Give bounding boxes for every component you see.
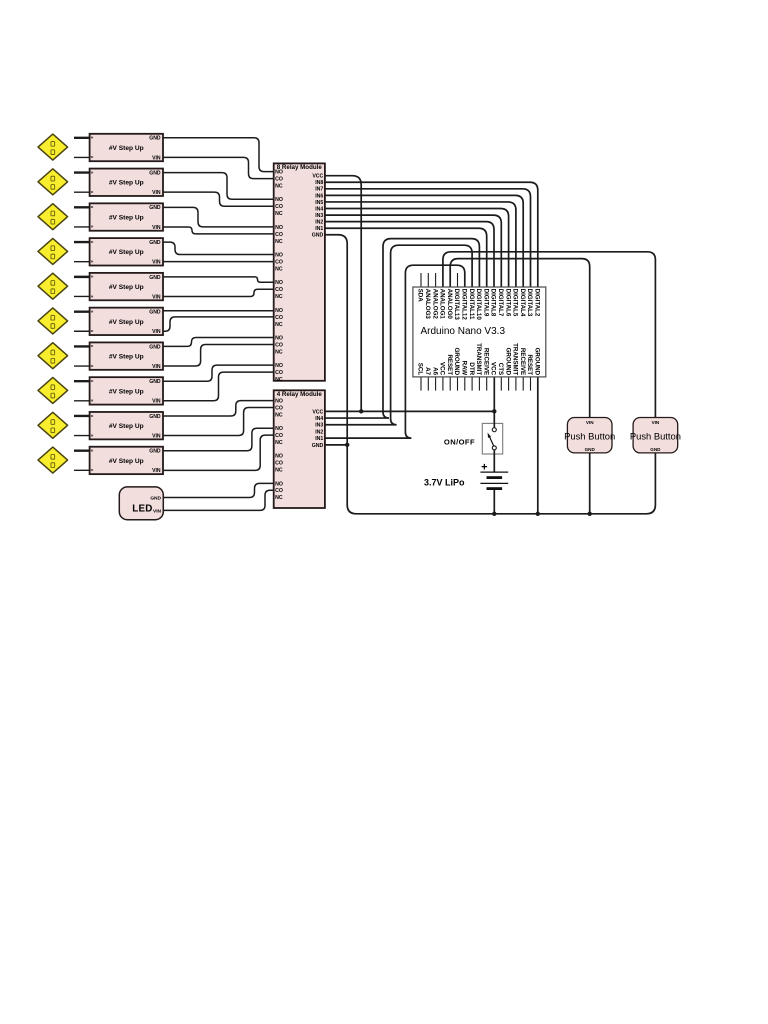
- svg-text:3.7V LiPo: 3.7V LiPo: [424, 477, 465, 487]
- svg-text:NC: NC: [275, 349, 283, 355]
- svg-text:CO: CO: [275, 370, 283, 376]
- svg-text:CO: CO: [275, 259, 283, 265]
- svg-text:VIN: VIN: [152, 468, 161, 474]
- svg-text:VIN: VIN: [652, 420, 660, 425]
- svg-text:GND: GND: [149, 170, 161, 176]
- svg-text:NC: NC: [275, 468, 283, 474]
- svg-text:IN: IN: [91, 380, 94, 383]
- svg-text:SCL: SCL: [417, 363, 424, 376]
- svg-text:GND: GND: [149, 240, 161, 246]
- svg-text:VIN: VIN: [152, 260, 161, 266]
- svg-text:IN8: IN8: [315, 180, 323, 186]
- svg-text:VIN: VIN: [153, 508, 162, 514]
- svg-text:CO: CO: [275, 405, 283, 411]
- svg-text:RECEIVE: RECEIVE: [482, 348, 489, 375]
- svg-text:IN: IN: [91, 276, 94, 279]
- svg-text:IN: IN: [91, 137, 94, 140]
- svg-text:NO: NO: [275, 170, 283, 176]
- svg-text:VCC: VCC: [312, 409, 323, 415]
- svg-text:A6: A6: [431, 367, 438, 375]
- svg-text:RECEIVE: RECEIVE: [519, 348, 526, 375]
- svg-text:IN: IN: [91, 469, 94, 472]
- svg-text:LED: LED: [132, 504, 152, 515]
- svg-text:GND: GND: [149, 310, 161, 316]
- svg-text:IN2: IN2: [315, 220, 323, 226]
- svg-text:NO: NO: [275, 426, 283, 432]
- svg-text:DIGITAL10: DIGITAL10: [475, 289, 482, 321]
- svg-text:VCC: VCC: [490, 362, 497, 376]
- svg-text:IN: IN: [91, 191, 94, 194]
- svg-text:NO: NO: [275, 481, 283, 487]
- svg-text:IN: IN: [91, 434, 94, 437]
- svg-text:+: +: [481, 462, 487, 474]
- svg-text:IN: IN: [91, 450, 94, 453]
- svg-text:VIN: VIN: [152, 155, 161, 161]
- svg-text:TRANSMIT: TRANSMIT: [512, 343, 519, 375]
- svg-text:CO: CO: [275, 488, 283, 494]
- svg-text:CO: CO: [275, 342, 283, 348]
- svg-text:ANALOG1: ANALOG1: [439, 289, 446, 320]
- svg-text:CO: CO: [275, 232, 283, 238]
- svg-text:NC: NC: [275, 322, 283, 328]
- svg-text:VIN: VIN: [152, 225, 161, 231]
- svg-text:VIN: VIN: [152, 329, 161, 335]
- svg-text:IN6: IN6: [315, 193, 323, 199]
- svg-text:GND: GND: [150, 495, 161, 501]
- svg-text:DIGITAL12: DIGITAL12: [461, 289, 468, 321]
- svg-text:GND: GND: [149, 136, 161, 142]
- svg-text:GND: GND: [585, 447, 596, 452]
- svg-text:ANALOG3: ANALOG3: [424, 289, 431, 320]
- svg-text:Arduino Nano V3.3: Arduino Nano V3.3: [421, 326, 506, 337]
- svg-text:IN: IN: [91, 226, 94, 229]
- svg-text:DIGITAL3: DIGITAL3: [526, 289, 533, 317]
- svg-text:IN: IN: [91, 295, 94, 298]
- svg-text:RAW: RAW: [461, 361, 468, 376]
- svg-text:#V Step Up: #V Step Up: [109, 284, 144, 291]
- svg-text:NO: NO: [275, 308, 283, 314]
- svg-text:NO: NO: [275, 363, 283, 369]
- svg-text:VIN: VIN: [152, 399, 161, 405]
- svg-text:NC: NC: [275, 412, 283, 418]
- svg-text:NC: NC: [275, 211, 283, 217]
- svg-text:NO: NO: [275, 197, 283, 203]
- svg-text:CO: CO: [275, 287, 283, 293]
- svg-text:#V Step Up: #V Step Up: [109, 214, 144, 221]
- svg-text:VIN: VIN: [152, 364, 161, 370]
- svg-text:CO: CO: [275, 177, 283, 183]
- svg-text:NC: NC: [275, 266, 283, 272]
- svg-text:SDA: SDA: [417, 289, 424, 303]
- svg-text:VCC: VCC: [439, 362, 446, 376]
- svg-text:CO: CO: [275, 204, 283, 210]
- svg-text:IN2: IN2: [315, 429, 323, 435]
- svg-text:IN: IN: [91, 415, 94, 418]
- svg-text:A7: A7: [424, 367, 431, 375]
- svg-text:RESET: RESET: [526, 354, 533, 375]
- svg-text:DIGITAL2: DIGITAL2: [534, 289, 541, 317]
- svg-text:RESET: RESET: [446, 354, 453, 375]
- svg-text:NC: NC: [275, 294, 283, 300]
- svg-text:VIN: VIN: [152, 433, 161, 439]
- svg-text:GROUND: GROUND: [453, 348, 460, 376]
- svg-text:NO: NO: [275, 454, 283, 460]
- svg-text:#V Step Up: #V Step Up: [109, 249, 144, 256]
- svg-text:GND: GND: [149, 344, 161, 350]
- svg-text:NO: NO: [275, 399, 283, 405]
- svg-text:GND: GND: [312, 233, 324, 239]
- svg-text:GND: GND: [149, 414, 161, 420]
- svg-text:ANALOG2: ANALOG2: [431, 289, 438, 320]
- svg-text:GND: GND: [149, 379, 161, 385]
- svg-text:CO: CO: [275, 433, 283, 439]
- svg-text:NO: NO: [275, 280, 283, 286]
- svg-text:GND: GND: [149, 275, 161, 281]
- svg-text:IN5: IN5: [315, 200, 323, 206]
- svg-text:#V Step Up: #V Step Up: [109, 354, 144, 361]
- svg-text:GND: GND: [650, 447, 661, 452]
- svg-text:Push Button: Push Button: [564, 431, 615, 442]
- svg-text:DIGITAL4: DIGITAL4: [519, 289, 526, 317]
- svg-text:IN4: IN4: [315, 206, 323, 212]
- svg-text:VIN: VIN: [152, 294, 161, 300]
- svg-text:GND: GND: [312, 443, 324, 449]
- svg-text:IN: IN: [91, 261, 94, 264]
- svg-text:IN4: IN4: [315, 416, 323, 422]
- svg-text:GROUND: GROUND: [534, 348, 541, 376]
- svg-text:NC: NC: [275, 377, 283, 383]
- svg-text:8 Relay Module: 8 Relay Module: [277, 164, 323, 171]
- svg-text:CO: CO: [275, 461, 283, 467]
- svg-text:#V Step Up: #V Step Up: [109, 458, 144, 465]
- svg-text:#V Step Up: #V Step Up: [109, 319, 144, 326]
- svg-text:ON/OFF: ON/OFF: [444, 438, 475, 447]
- svg-text:VCC: VCC: [312, 174, 323, 180]
- svg-text:IN1: IN1: [315, 226, 323, 232]
- svg-text:NC: NC: [275, 184, 283, 190]
- svg-text:VIN: VIN: [152, 190, 161, 196]
- svg-text:#V Step Up: #V Step Up: [109, 388, 144, 395]
- svg-text:#V Step Up: #V Step Up: [109, 180, 144, 187]
- svg-text:DTR: DTR: [468, 362, 475, 375]
- svg-text:IN3: IN3: [315, 213, 323, 219]
- svg-text:DIGITAL5: DIGITAL5: [512, 289, 519, 317]
- svg-text:IN3: IN3: [315, 423, 323, 429]
- svg-text:IN: IN: [91, 206, 94, 209]
- svg-text:#V Step Up: #V Step Up: [109, 145, 144, 152]
- svg-text:IN1: IN1: [315, 436, 323, 442]
- svg-text:DIGITAL6: DIGITAL6: [504, 289, 511, 317]
- svg-text:IN: IN: [91, 400, 94, 403]
- svg-text:NO: NO: [275, 225, 283, 231]
- svg-text:IN: IN: [91, 365, 94, 368]
- svg-text:IN: IN: [91, 241, 94, 244]
- svg-text:GND: GND: [149, 205, 161, 211]
- svg-text:IN: IN: [91, 171, 94, 174]
- svg-text:GROUND: GROUND: [504, 348, 511, 376]
- svg-text:IN: IN: [91, 345, 94, 348]
- svg-text:IN7: IN7: [315, 187, 323, 193]
- svg-text:4 Relay Module: 4 Relay Module: [277, 391, 323, 398]
- svg-text:#V Step Up: #V Step Up: [109, 423, 144, 430]
- svg-text:IN: IN: [91, 310, 94, 313]
- svg-text:CO: CO: [275, 315, 283, 321]
- svg-text:NO: NO: [275, 252, 283, 258]
- svg-text:NC: NC: [275, 239, 283, 245]
- svg-text:NC: NC: [275, 495, 283, 501]
- svg-text:IN: IN: [91, 330, 94, 333]
- svg-text:ANALOG0: ANALOG0: [446, 289, 453, 320]
- svg-text:DIGITAL7: DIGITAL7: [497, 289, 504, 317]
- svg-text:DIGITAL13: DIGITAL13: [453, 289, 460, 321]
- svg-text:DIGITAL8: DIGITAL8: [490, 289, 497, 317]
- svg-text:Push Button: Push Button: [630, 431, 681, 442]
- svg-text:VIN: VIN: [586, 420, 594, 425]
- svg-text:NO: NO: [275, 335, 283, 341]
- svg-text:DIGITAL11: DIGITAL11: [468, 289, 475, 320]
- svg-text:NC: NC: [275, 440, 283, 446]
- svg-text:IN: IN: [91, 156, 94, 159]
- svg-text:DIGITAL9: DIGITAL9: [482, 289, 489, 317]
- svg-text:CTS: CTS: [497, 363, 504, 375]
- svg-text:TRANSMIT: TRANSMIT: [475, 343, 482, 375]
- svg-text:GND: GND: [149, 449, 161, 455]
